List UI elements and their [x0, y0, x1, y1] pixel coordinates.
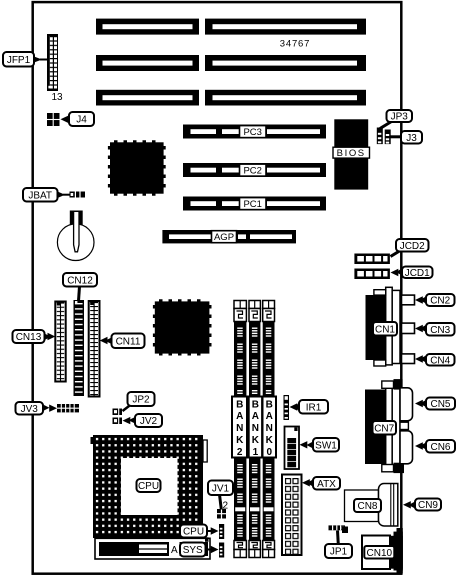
label CN8: [354, 499, 381, 512]
connector SYS fan: [219, 543, 224, 558]
connector JP3 header B: [385, 130, 391, 145]
svg-text:CN11: CN11: [116, 336, 141, 347]
svg-text:CN5: CN5: [430, 399, 450, 410]
svg-text:A: A: [266, 411, 273, 422]
svg-text:N: N: [266, 423, 273, 434]
label SW1: [300, 438, 340, 452]
svg-text:AGP: AGP: [214, 232, 234, 243]
svg-text:CN10: CN10: [367, 548, 393, 559]
label ATX: [302, 477, 340, 490]
svg-text:JP1: JP1: [330, 547, 348, 558]
label CN1: [373, 322, 397, 336]
DIMM slot BANK2: [232, 301, 247, 558]
ISA slot left 3: [96, 90, 199, 106]
port stub CN4: [402, 354, 415, 364]
label JBAT: [23, 188, 70, 202]
svg-text:CN3: CN3: [430, 325, 450, 336]
svg-text:JBAT: JBAT: [28, 190, 52, 201]
svg-text:CPU: CPU: [183, 527, 204, 538]
port stub CN2: [402, 295, 415, 305]
ISA slot left 2: [96, 55, 199, 71]
svg-text:JV3: JV3: [21, 404, 39, 415]
connector JCD1: [354, 269, 390, 280]
label J4: [61, 112, 95, 126]
fan bar assembly: [95, 537, 210, 559]
svg-text:CN9: CN9: [418, 500, 438, 511]
pin label 2: [223, 501, 229, 512]
ISA slot right 2: [205, 55, 366, 71]
svg-text:SYS: SYS: [183, 545, 203, 556]
connector JP2 header: [113, 409, 123, 416]
port CN5 (D-sub): [400, 388, 413, 421]
connector JV2 header: [113, 418, 123, 425]
svg-text:PC3: PC3: [243, 127, 261, 138]
svg-text:A: A: [252, 411, 259, 422]
small component near CN8: [342, 527, 348, 534]
label CN12: [63, 273, 97, 301]
connector CN10 (USB stack): [362, 528, 403, 574]
connector CN13 (DIMM-style strip): [55, 302, 65, 382]
PCI slot PC1: [183, 197, 326, 211]
label CN10: [364, 546, 394, 559]
label CN4: [415, 354, 455, 366]
svg-text:JCD1: JCD1: [405, 268, 430, 279]
port CN6 (D-sub): [400, 431, 413, 464]
svg-text:JP2: JP2: [132, 395, 150, 406]
svg-text:CN4: CN4: [430, 355, 450, 366]
svg-text:34767: 34767: [280, 39, 310, 50]
CPU socket: [91, 435, 208, 538]
svg-text:A: A: [171, 545, 178, 556]
label IR1: [290, 400, 329, 414]
label CN9: [403, 499, 441, 512]
svg-text:IR1: IR1: [306, 402, 322, 413]
label JCD1: [391, 267, 433, 279]
BIOS chip: [333, 119, 370, 189]
svg-text:J4: J4: [76, 115, 87, 126]
connector JV1: [217, 509, 226, 519]
DIMM slot BANK0: [263, 301, 277, 558]
label JP3: [380, 110, 412, 129]
connector JBAT header: [70, 192, 86, 198]
svg-text:CN12: CN12: [67, 275, 93, 286]
svg-text:SW1: SW1: [315, 440, 337, 451]
board outline: [33, 2, 402, 574]
svg-text:CN13: CN13: [16, 332, 42, 343]
connector CPU fan: [219, 524, 224, 539]
chipset U2: [154, 301, 210, 355]
label JV2: [123, 414, 163, 427]
svg-text:13: 13: [51, 92, 63, 103]
svg-text:A: A: [236, 411, 243, 422]
svg-text:CN6: CN6: [430, 442, 450, 453]
svg-text:B: B: [252, 400, 259, 411]
svg-text:JV2: JV2: [140, 416, 158, 427]
pin label 13: [51, 92, 63, 103]
connector IR1: [284, 395, 290, 420]
svg-text:B: B: [236, 400, 243, 411]
ISA slot left 1: [96, 19, 199, 35]
label CN5: [415, 398, 455, 411]
label JV1: [208, 481, 233, 510]
connector JCD2: [354, 254, 390, 265]
ISA slot right 1: [205, 19, 366, 35]
svg-text:JP3: JP3: [391, 112, 409, 123]
label CN13: [13, 330, 56, 343]
DIP switch SW1: [285, 427, 300, 470]
connector JV3 header: [57, 404, 79, 412]
svg-text:PC2: PC2: [243, 166, 261, 177]
PCI slot PC2: [183, 163, 326, 177]
connector JP3 header A: [377, 128, 383, 145]
label CN3: [415, 323, 455, 336]
connector JP1 header: [329, 525, 346, 530]
board number 34767: [280, 39, 310, 50]
svg-text:JV1: JV1: [212, 483, 230, 494]
connector JFP1: [47, 34, 58, 91]
svg-text:CN7: CN7: [374, 423, 394, 434]
label CN7: [373, 421, 397, 435]
svg-text:J3: J3: [406, 133, 417, 144]
connector ATX power: [282, 475, 302, 557]
label SYS fan: [180, 543, 219, 557]
svg-text:CN2: CN2: [430, 296, 450, 307]
AGP slot: [162, 230, 296, 243]
label CPU (socket): [137, 479, 161, 492]
label JV3: [16, 402, 58, 415]
battery BT1: [57, 211, 94, 261]
PCI slot PC3: [183, 125, 326, 139]
label JP2: [123, 392, 155, 411]
svg-text:N: N: [236, 423, 243, 434]
ISA slot right 3: [205, 90, 366, 106]
svg-text:K: K: [266, 435, 274, 446]
label CN2: [415, 294, 455, 307]
label JP1: [325, 531, 352, 559]
connector CN12 (strip): [74, 300, 85, 396]
connector CN11 (strip): [89, 301, 100, 397]
connector CN1 block (keyboard/serial stack): [366, 287, 401, 366]
svg-text:JCD2: JCD2: [400, 241, 425, 252]
connector CN8 block (PS/2 stack): [345, 484, 398, 527]
label J3: [391, 131, 423, 144]
svg-text:2: 2: [237, 447, 243, 458]
connector CN7 block (parallel/serial stack): [365, 379, 404, 473]
label CN11: [100, 334, 145, 349]
connector J4: [47, 113, 60, 126]
label CPU fan: [180, 525, 219, 538]
mid tab between CN5 and CN6: [400, 422, 408, 429]
svg-text:B: B: [266, 400, 273, 411]
svg-text:CN1: CN1: [375, 324, 395, 335]
svg-text:K: K: [252, 435, 260, 446]
svg-text:ATX: ATX: [317, 479, 336, 490]
chipset U1: [109, 142, 164, 195]
svg-text:JFP1: JFP1: [7, 55, 31, 66]
svg-text:BIOS: BIOS: [337, 148, 366, 159]
label CN6: [415, 440, 455, 453]
svg-text:2: 2: [223, 501, 229, 512]
svg-text:CN8: CN8: [357, 501, 377, 512]
svg-text:0: 0: [267, 447, 273, 458]
label JFP1: [3, 52, 47, 67]
DIMM slot BANK1: [249, 301, 262, 558]
port stub CN3: [402, 323, 415, 333]
svg-text:PC1: PC1: [243, 199, 261, 210]
label JCD2: [391, 239, 429, 257]
svg-text:N: N: [252, 423, 259, 434]
svg-text:CPU: CPU: [138, 481, 159, 492]
svg-text:1: 1: [253, 447, 259, 458]
svg-text:K: K: [236, 435, 244, 446]
